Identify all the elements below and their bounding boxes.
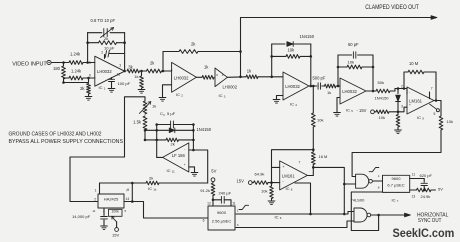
resistor 10k to ground [261,183,275,205]
svg-text:1k: 1k [134,74,138,79]
wire right rail [352,130,441,177]
note text [9,131,124,145]
label IC6 [275,214,282,220]
wire [227,76,246,79]
resistor 1.5k [133,116,147,130]
wire [337,55,339,86]
svg-text:LH0032: LH0032 [174,75,189,80]
wire [236,221,354,228]
svg-text:10 pF: 10 pF [104,46,115,51]
svg-text:91.2k: 91.2k [200,188,210,193]
pin 14 wire [124,197,208,218]
capacitor 500 pF [309,76,326,90]
capacitor 240 uF [213,191,232,206]
svg-text:+: + [184,163,186,167]
node VIDEO INPUT terminal [12,60,51,67]
svg-text:IC: IC [99,85,103,90]
svg-text:GROUND CASES OF LH0032 AND LH: GROUND CASES OF LH0032 AND LH002 [9,131,102,137]
svg-text:IC: IC [176,92,180,97]
resistor 3k [127,65,140,73]
svg-text:3: 3 [119,63,121,67]
pin 1 [95,183,100,194]
pin 11 and capacitor 100 pF [108,73,131,93]
svg-text:10k: 10k [288,48,296,53]
ground stage3 plus input [273,96,283,104]
svg-text:1k: 1k [327,90,331,95]
capacitor CX 5 uF [157,111,194,128]
svg-text:IC: IC [346,108,350,113]
wire [62,63,65,84]
svg-text:15V: 15V [237,178,245,183]
svg-text:24.9k: 24.9k [421,194,431,199]
potentiometer 100k [109,209,123,237]
wire riser [127,183,133,203]
svg-text:11: 11 [232,201,236,205]
svg-text:10k: 10k [348,60,356,65]
wire [159,182,208,184]
wire [312,165,315,176]
resistor 1k [196,64,214,79]
pin numbers [92,209,126,213]
resistor 180 [53,66,65,79]
svg-text:LF 156: LF 156 [172,153,186,158]
wire plus input stub [272,166,280,168]
wire [258,76,283,79]
ground LF156 plus input [189,167,198,176]
svg-text:100k: 100k [112,209,120,213]
resistor 2k feedback LF156 [157,138,194,147]
comparator IC9 LM161 [401,84,434,120]
resistor 10k to ground [395,112,402,134]
svg-text:11: 11 [92,209,95,213]
terminal 15V [237,178,253,184]
node junction [140,70,147,73]
wire [145,139,157,141]
diode 1N4150 vertical [375,89,401,112]
wire riser to top rail [240,18,242,77]
resistor 16M [311,152,327,165]
svg-text:7: 7 [299,161,301,165]
wire [86,33,89,63]
svg-text:11: 11 [412,173,416,177]
svg-text:180: 180 [53,66,61,71]
svg-text:+: + [409,103,411,107]
resistor 1k shunt [134,71,145,93]
wire [395,87,407,94]
sample-hold HA2425 [98,194,124,208]
svg-text:SeekIC.com: SeekIC.com [393,226,455,240]
svg-text:1: 1 [237,209,239,213]
svg-text:9600: 9600 [392,176,402,181]
ground stage2 plus input [159,85,172,101]
svg-text:5: 5 [434,112,436,116]
svg-text:IC: IC [219,93,223,98]
svg-text:60 pF: 60 pF [348,42,359,47]
resistor 2k feedback [88,36,126,45]
svg-text:5: 5 [89,61,91,65]
wire [344,212,353,215]
resistor 91.2k [200,182,215,206]
resistor 1k [246,69,258,79]
resistor 10M feedback [404,61,436,89]
resistor 10k feedback [270,48,312,59]
pin 2 [101,51,103,55]
svg-text:2: 2 [94,198,96,202]
resistor R 1.24k (bottom) [69,69,83,80]
svg-text:11: 11 [172,170,175,174]
svg-text:LH0002: LH0002 [223,84,238,89]
comparator IC8 LM161 [280,161,308,192]
svg-text:74LS00: 74LS00 [351,198,366,203]
wire output node [434,72,441,102]
svg-text:IC: IC [286,186,290,191]
resistor 10k pulldown [439,116,453,130]
svg-text:1k: 1k [152,104,156,109]
svg-text:HA2425: HA2425 [104,197,119,202]
wire [51,61,69,64]
svg-text:1N4150: 1N4150 [197,127,212,132]
svg-text:240 µF: 240 µF [219,191,232,196]
resistor R 1.24k (top) [69,52,83,65]
wire [310,44,313,87]
op-amp IC11 LF156 [163,143,189,174]
wire [83,77,95,80]
svg-text:1N4150: 1N4150 [300,34,315,39]
resistor 2k feedback stage2 [163,41,242,53]
svg-text:64.9k: 64.9k [255,172,266,177]
svg-text:0.8 TO 10 pF: 0.8 TO 10 pF [91,18,116,23]
svg-text:13: 13 [412,194,416,198]
wire [372,55,375,92]
wire [344,183,355,185]
svg-text:LH0032: LH0032 [342,89,357,94]
svg-text:IC: IC [167,168,171,173]
svg-text:3: 3 [237,223,239,227]
svg-text:10k: 10k [447,119,453,124]
wire [162,70,172,73]
buffer IC3 LH0002 [215,68,238,99]
svg-text:7: 7 [431,86,433,90]
one-shot IC7 9600 6.7 uSEC [383,175,410,203]
wire [236,213,344,215]
svg-text:1N4150: 1N4150 [375,95,390,100]
resistor 64.9k [252,172,280,185]
wire [123,33,126,73]
svg-text:1: 1 [378,174,380,178]
svg-text:16 M: 16 M [319,154,328,159]
pin 5 strobe [430,104,440,116]
wire [440,101,442,117]
wire strobe pin loop [295,183,312,215]
svg-text:1: 1 [95,189,97,193]
resistor 2k [80,84,90,95]
wire comparator output [307,175,313,177]
capacitor 10 pF [104,46,125,59]
svg-text:10 M: 10 M [409,61,419,66]
wire pin 2 loop [70,157,125,202]
op-amp IC1 LH0032 [89,56,125,90]
svg-text:5V: 5V [438,187,443,192]
svg-text:5 µF: 5 µF [167,111,176,116]
clamp rail right [192,123,195,151]
svg-text:1b: 1b [153,188,157,192]
wire [83,61,95,64]
resistor 2k series [147,61,162,73]
capacitor 14,000 pF [72,208,107,230]
one-shot IC6 9600 2.56 uSEC [208,206,235,230]
svg-text:500 pF: 500 pF [313,76,326,81]
svg-text:10k: 10k [317,118,323,123]
svg-text:X: X [163,113,165,117]
label IC5 -15V terminal [346,108,374,114]
pin 7 [430,86,433,98]
svg-text:BYPASS ALL POWER SUPPLY CONNEC: BYPASS ALL POWER SUPPLY CONNECTIONS [9,139,124,145]
svg-text:10k: 10k [379,115,385,120]
svg-text:- 15V: - 15V [357,108,367,113]
svg-text:6: 6 [378,186,380,190]
wire [313,167,345,215]
resistor 10k feedback [337,60,375,69]
svg-text:6: 6 [89,73,91,77]
resistor 50k [376,80,395,93]
wire CLAMPED VIDEO OUT [241,4,438,19]
wire [100,182,147,185]
watermark SeekIC.com [393,226,455,240]
trimmer capacitor 0.8 TO 10 pF [88,18,125,37]
capacitor 60 pF feedback [338,42,373,58]
NAND gate IC 74LS00 a [356,174,373,188]
wire [145,129,157,131]
wire feedback riser [272,150,314,183]
pin 3 [119,63,121,67]
svg-text:IC: IC [392,197,396,202]
svg-text:11: 11 [117,73,121,77]
svg-text:100 pF: 100 pF [118,81,131,86]
svg-text:1.24k: 1.24k [70,52,81,57]
potentiometer 1k [139,101,156,114]
pin 11 wire 620 pF [410,173,433,191]
diode 1N4150 clamp [157,127,212,133]
wire [366,90,376,92]
svg-text:IC: IC [275,214,279,219]
svg-text:15V: 15V [112,233,119,238]
ground stage4 plus input [334,98,341,117]
svg-text:2.56 µSEC: 2.56 µSEC [212,219,232,224]
svg-text:3: 3 [401,105,403,109]
wire [189,149,194,151]
clamp rail [155,123,158,157]
svg-text:620 pF: 620 pF [420,173,433,178]
svg-text:SYNC OUT: SYNC OUT [418,218,442,224]
svg-text:7: 7 [126,189,128,193]
svg-text:IC: IC [148,186,152,191]
svg-text:14: 14 [126,197,130,201]
wire [372,174,382,181]
svg-text:LH0032: LH0032 [97,69,112,74]
svg-text:10k: 10k [261,189,267,194]
svg-text:LM161: LM161 [409,99,422,104]
wire output [157,156,163,158]
diode 1N4150 feedback [272,34,315,46]
wire [64,78,89,83]
wire [398,107,407,112]
svg-text:LM161: LM161 [282,173,295,178]
terminal 5V [211,169,217,182]
op-amp IC4 LH0032 [283,72,309,107]
svg-text:VIDEO INPUT: VIDEO INPUT [12,61,47,67]
pulse symbol [239,205,249,209]
svg-text:6.7 µSEC: 6.7 µSEC [387,183,404,188]
op-amp IC5 LH0032 [340,78,366,104]
resistor 1k series [312,84,340,95]
wire [64,77,70,79]
label 74LS00 [351,198,366,203]
pin 7 [126,189,128,193]
label HORIZONTAL SYNC OUT [417,213,448,225]
svg-text:IC: IC [417,115,421,120]
wire latch feedback [351,186,382,231]
pin labels [203,201,239,227]
svg-text:6: 6 [203,219,205,223]
svg-text:IC: IC [290,102,294,107]
wire feedback riser [271,44,273,77]
svg-text:12: 12 [207,201,211,205]
op-amp IC2 LH0032 [172,62,197,97]
wire feedback riser [162,52,164,72]
svg-text:2: 2 [401,84,403,88]
svg-text:1.5k: 1.5k [133,119,142,124]
svg-text:14,000 pF: 14,000 pF [72,214,91,219]
ground [85,94,92,100]
wire to 5V node [193,150,207,183]
wire offset rail [125,97,146,157]
wire [144,129,147,141]
resistor 2k [146,175,159,191]
wire [312,127,315,152]
svg-text:50k: 50k [378,80,386,85]
svg-text:2: 2 [101,51,103,55]
wire sync out [371,213,411,217]
pin 13 resistor 24.9k to 5V [410,187,444,200]
NAND gate IC 74LS00 b [354,208,371,222]
resistor 10k divider [311,86,323,127]
svg-text:LH0032: LH0032 [285,84,300,89]
resistor 10k from -15V [374,110,399,120]
svg-text:CLAMPED VIDEO OUT: CLAMPED VIDEO OUT [365,4,419,11]
svg-text:1.24k: 1.24k [71,69,82,74]
svg-text:9600: 9600 [217,210,227,215]
pulse symbol [369,168,379,172]
svg-text:5V: 5V [211,169,216,174]
